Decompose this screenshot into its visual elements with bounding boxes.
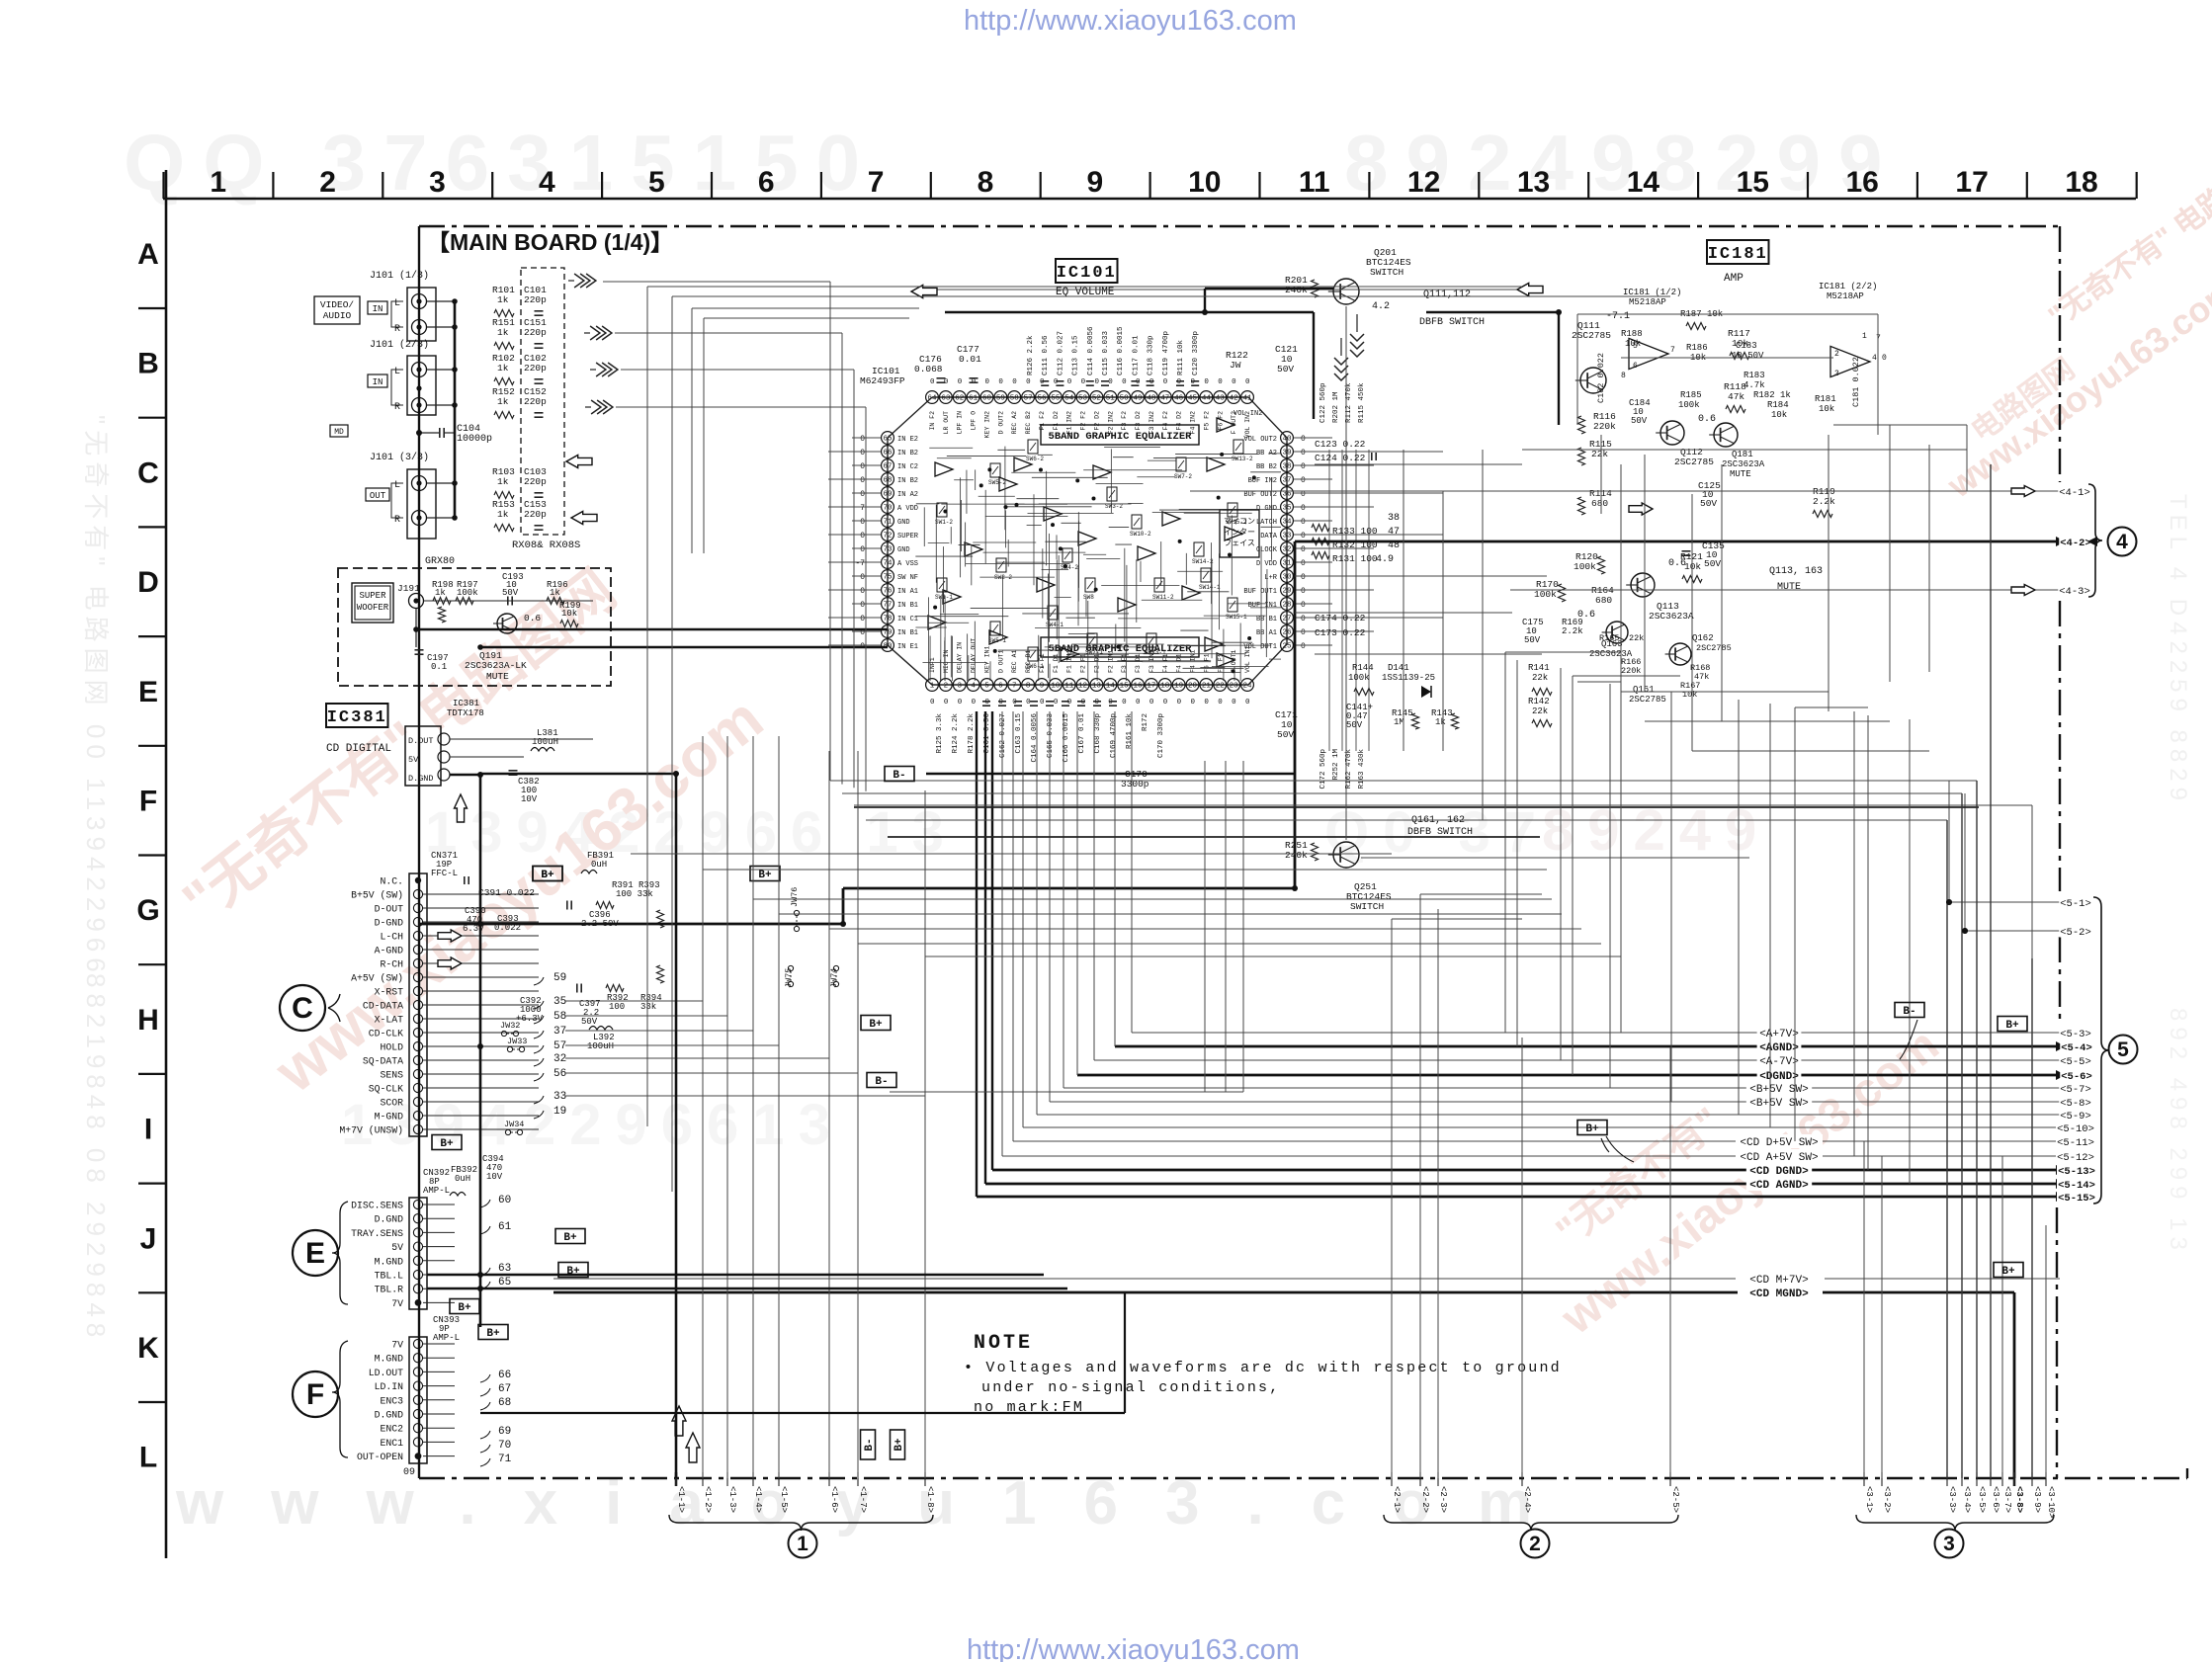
svg-text:16: 16 (1134, 683, 1144, 691)
svg-text:0: 0 (1232, 699, 1236, 706)
svg-text:TBL.R: TBL.R (375, 1285, 404, 1295)
svg-text:0: 0 (1301, 449, 1306, 457)
svg-text:11: 11 (1064, 683, 1074, 691)
svg-text:C118 330p: C118 330p (1148, 335, 1155, 375)
svg-text:220k: 220k (1621, 666, 1641, 676)
svg-text:インター: インター (1224, 528, 1255, 537)
svg-text:D.GND: D.GND (375, 1410, 404, 1421)
svg-text:C120 3300p: C120 3300p (1192, 331, 1200, 375)
svg-text:BUF IN2: BUF IN2 (1248, 477, 1277, 485)
svg-text:SW14-1: SW14-1 (1199, 584, 1221, 591)
svg-text:<5-14>: <5-14> (2058, 1180, 2095, 1192)
svg-text:B+: B+ (486, 1328, 500, 1340)
svg-text:OUT-OPEN: OUT-OPEN (357, 1452, 403, 1462)
svg-text:0: 0 (1191, 699, 1196, 706)
svg-text:LD.OUT: LD.OUT (369, 1368, 403, 1378)
svg-text:<CD DGND>: <CD DGND> (1749, 1166, 1809, 1178)
svg-text:B+: B+ (2005, 1020, 2019, 1032)
svg-text:<2-1>: <2-1> (1392, 1486, 1402, 1513)
svg-text:C163 0.15: C163 0.15 (1015, 713, 1023, 754)
svg-text:25: 25 (1282, 643, 1292, 651)
svg-text:X-LAT: X-LAT (375, 1015, 404, 1026)
svg-text:<2-2>: <2-2> (1420, 1486, 1430, 1513)
svg-text:100k: 100k (1678, 400, 1700, 410)
svg-text:0: 0 (860, 615, 865, 623)
svg-text:79: 79 (883, 629, 892, 637)
svg-text:R178 2.2k: R178 2.2k (968, 713, 976, 754)
svg-text:33k: 33k (640, 1002, 656, 1012)
svg-text:13: 13 (1092, 683, 1102, 691)
svg-text:AMP: AMP (1724, 273, 1744, 285)
svg-text:R184: R184 (1767, 400, 1789, 410)
svg-text:<3-4>: <3-4> (1962, 1486, 1972, 1513)
svg-text:47k: 47k (1728, 391, 1744, 402)
svg-text:0: 0 (1218, 699, 1223, 706)
svg-text:G: G (136, 894, 159, 927)
svg-text:J: J (140, 1222, 157, 1255)
svg-text:Q113, 163: Q113, 163 (1769, 566, 1823, 577)
svg-text:3: 3 (1943, 1533, 1955, 1555)
svg-text:<5-5>: <5-5> (2060, 1056, 2091, 1068)
svg-text:4: 4 (1872, 354, 1877, 363)
svg-text:A: A (137, 238, 159, 271)
svg-text:D.OUT: D.OUT (408, 736, 434, 746)
svg-text:0: 0 (944, 699, 949, 706)
svg-text:70: 70 (498, 1440, 511, 1452)
svg-text:DELAY IN: DELAY IN (957, 642, 964, 673)
svg-text:2SC3623A: 2SC3623A (1649, 611, 1694, 622)
svg-text:15: 15 (1737, 166, 1769, 199)
svg-text:M-GND: M-GND (375, 1112, 404, 1122)
svg-text:R188: R188 (1621, 329, 1643, 339)
svg-text:A VSS: A VSS (897, 560, 918, 568)
svg-text:SW6-2: SW6-2 (1026, 456, 1044, 462)
svg-text:F2 F2: F2 F2 (1080, 411, 1087, 431)
svg-text:SW5-1: SW5-1 (988, 637, 1006, 644)
svg-text:1k: 1k (497, 363, 509, 374)
svg-text:7: 7 (860, 504, 865, 513)
svg-text:22k: 22k (1532, 673, 1548, 683)
svg-text:0: 0 (860, 573, 865, 582)
svg-text:C113 0.15: C113 0.15 (1072, 335, 1080, 375)
svg-text:L: L (394, 367, 400, 377)
svg-text:48: 48 (1147, 395, 1155, 403)
svg-text:IN C2: IN C2 (897, 463, 918, 471)
svg-text:0: 0 (1245, 699, 1250, 706)
svg-text:C: C (137, 457, 159, 489)
svg-text:3: 3 (429, 166, 446, 199)
svg-text:1k: 1k (497, 294, 509, 305)
svg-text:<CD AGND>: <CD AGND> (1749, 1180, 1809, 1192)
svg-text:WOOFER: WOOFER (357, 603, 389, 613)
svg-text:22k: 22k (1591, 449, 1608, 459)
svg-text:SW10-2: SW10-2 (1130, 531, 1151, 538)
svg-text:<5-9>: <5-9> (2060, 1111, 2091, 1122)
svg-text:46: 46 (1174, 395, 1184, 403)
svg-text:30: 30 (1282, 574, 1292, 582)
svg-text:SW13-2: SW13-2 (1232, 456, 1253, 462)
svg-text:0: 0 (1301, 573, 1306, 582)
svg-text:SW8: SW8 (1083, 594, 1094, 601)
svg-text:0.6: 0.6 (524, 613, 541, 623)
svg-text:SW NF: SW NF (897, 574, 918, 582)
svg-text:680: 680 (1595, 595, 1612, 606)
svg-text:1k: 1k (1435, 717, 1446, 727)
svg-text:0: 0 (930, 699, 935, 706)
svg-text:100uH: 100uH (587, 1041, 614, 1051)
svg-text:50V: 50V (1704, 558, 1721, 569)
svg-text:<A+7V>: <A+7V> (1759, 1029, 1799, 1040)
svg-text:5: 5 (984, 683, 989, 691)
svg-text:B+: B+ (563, 1232, 577, 1244)
svg-text:B+: B+ (440, 1138, 454, 1150)
svg-text:ENC3: ENC3 (380, 1395, 403, 1406)
svg-text:<2-4>: <2-4> (1522, 1486, 1532, 1513)
svg-text:J101 (1/3): J101 (1/3) (370, 270, 429, 282)
svg-text:<1-6>: <1-6> (829, 1486, 839, 1513)
svg-text:6: 6 (998, 683, 1003, 691)
svg-text:H: H (137, 1004, 159, 1037)
svg-text:C172 560p: C172 560p (1319, 749, 1327, 789)
svg-text:2: 2 (319, 166, 336, 199)
svg-text:71: 71 (883, 519, 893, 527)
svg-text:D OUT1: D OUT1 (997, 649, 1004, 673)
svg-text:0: 0 (860, 490, 865, 499)
svg-text:TRAY.SENS: TRAY.SENS (351, 1228, 403, 1239)
svg-text:-7: -7 (855, 559, 865, 568)
svg-text:AUDIO: AUDIO (323, 310, 352, 321)
svg-text:11: 11 (1299, 166, 1330, 199)
svg-text:0: 0 (860, 476, 865, 485)
svg-text:0: 0 (1163, 699, 1168, 706)
svg-text:MUTE: MUTE (1777, 582, 1801, 593)
svg-text:0: 0 (1301, 559, 1306, 568)
svg-text:62: 62 (955, 395, 964, 403)
svg-text:R111 10k: R111 10k (1177, 339, 1185, 375)
svg-text:0: 0 (1301, 518, 1306, 527)
svg-text:D141: D141 (1388, 663, 1409, 673)
svg-text:0uH: 0uH (591, 860, 607, 870)
svg-text:JW: JW (1230, 360, 1241, 371)
svg-text:88219848 08 2929848: 88219848 08 2929848 (81, 973, 111, 1343)
svg-text:58: 58 (553, 1011, 566, 1023)
svg-text:F6 F1: F6 F1 (1217, 653, 1224, 673)
svg-text:<B+5V SW>: <B+5V SW> (1749, 1084, 1808, 1096)
svg-text:B+: B+ (541, 870, 554, 881)
svg-text:65: 65 (883, 436, 893, 444)
svg-text:0: 0 (1301, 615, 1306, 623)
svg-text:0: 0 (1149, 699, 1154, 706)
svg-text:C165 0.033: C165 0.033 (1047, 713, 1055, 759)
svg-text:IC381: IC381 (453, 699, 479, 708)
svg-text:68: 68 (883, 477, 892, 485)
svg-text:8: 8 (978, 166, 994, 199)
svg-text:73: 73 (883, 546, 893, 554)
svg-text:42: 42 (1230, 395, 1238, 403)
svg-text:A VDD: A VDD (897, 505, 918, 513)
svg-text:220k: 220k (1593, 421, 1616, 432)
svg-text:C119 4700p: C119 4700p (1162, 331, 1170, 375)
svg-text:50V: 50V (1277, 729, 1294, 740)
svg-text:R182 1k: R182 1k (1753, 390, 1791, 400)
svg-text:F: F (306, 1378, 324, 1411)
svg-text:10k: 10k (1819, 404, 1834, 414)
svg-text:2SC3623A-LK: 2SC3623A-LK (465, 660, 527, 671)
svg-text:R141: R141 (1528, 663, 1550, 673)
svg-text:80: 80 (883, 643, 893, 651)
svg-text:50V: 50V (581, 1017, 598, 1027)
svg-text:0: 0 (860, 462, 865, 471)
svg-text:50: 50 (1120, 395, 1130, 403)
svg-text:0: 0 (1204, 378, 1209, 386)
svg-text:75: 75 (883, 574, 893, 582)
svg-text:56: 56 (553, 1068, 566, 1080)
svg-text:CD DIGITAL: CD DIGITAL (326, 743, 391, 755)
svg-text:SW5-2: SW5-2 (988, 479, 1006, 486)
svg-text:Q162: Q162 (1692, 633, 1714, 643)
svg-text:-7.1: -7.1 (1606, 311, 1630, 322)
svg-text:E: E (305, 1237, 325, 1270)
svg-text:47: 47 (1388, 527, 1400, 538)
svg-text:<5-6>: <5-6> (2061, 1071, 2092, 1083)
svg-text:GND: GND (897, 519, 910, 527)
svg-text:C117 0.01: C117 0.01 (1132, 335, 1140, 375)
svg-text:44: 44 (1202, 395, 1212, 403)
svg-text:BUF OUT2: BUF OUT2 (1243, 491, 1277, 499)
svg-text:D.GND: D.GND (375, 1214, 404, 1225)
svg-text:0: 0 (860, 587, 865, 596)
svg-text:B+: B+ (2001, 1266, 2015, 1278)
svg-text:R131 100: R131 100 (1332, 553, 1378, 564)
svg-text:5: 5 (2117, 1039, 2129, 1061)
svg-text:<B+5V SW>: <B+5V SW> (1749, 1098, 1808, 1110)
svg-text:R125 3.3k: R125 3.3k (936, 713, 944, 754)
svg-text:FFC-L: FFC-L (431, 869, 458, 878)
svg-text:R165: R165 (1599, 633, 1619, 643)
svg-text:Q111,112: Q111,112 (1423, 290, 1471, 300)
svg-text:69: 69 (883, 491, 892, 499)
svg-text:0: 0 (860, 642, 865, 651)
svg-text:D.GND: D.GND (408, 774, 434, 784)
svg-text:<5-13>: <5-13> (2058, 1166, 2095, 1178)
svg-text:JW32: JW32 (500, 1021, 520, 1031)
svg-text:D VDD: D VDD (1256, 560, 1277, 568)
svg-text:<CD A+5V SW>: <CD A+5V SW> (1740, 1152, 1818, 1164)
svg-text:0: 0 (1122, 699, 1127, 706)
svg-text:M+7V (UNSW): M+7V (UNSW) (339, 1125, 403, 1136)
svg-text:67: 67 (883, 463, 892, 471)
svg-text:F1 F2: F1 F2 (1039, 411, 1046, 431)
svg-text:0: 0 (958, 378, 963, 386)
svg-text:50V: 50V (1277, 364, 1294, 374)
svg-text:58: 58 (1010, 395, 1019, 403)
svg-text:JW33: JW33 (507, 1037, 527, 1046)
svg-text:F4 F2: F4 F2 (1162, 411, 1169, 431)
svg-text:0: 0 (1301, 545, 1306, 554)
svg-text:2SC3623A: 2SC3623A (1722, 459, 1765, 469)
svg-text:C123 0.22: C123 0.22 (1315, 439, 1366, 450)
svg-text:27: 27 (1282, 616, 1291, 623)
svg-text:C182 0.022: C182 0.022 (1596, 353, 1606, 403)
svg-text:R126 2.2k: R126 2.2k (1027, 335, 1035, 375)
svg-text:B+: B+ (893, 1438, 905, 1452)
svg-text:C112 0.027: C112 0.027 (1057, 331, 1064, 375)
svg-text:C391 0.022: C391 0.022 (478, 887, 535, 898)
svg-text:C124 0.22: C124 0.22 (1315, 453, 1366, 463)
svg-text:5BAND GRAPHIC EQUALIZER: 5BAND GRAPHIC EQUALIZER (1049, 431, 1193, 443)
svg-text:22k: 22k (1532, 706, 1548, 716)
svg-text:22: 22 (1216, 683, 1225, 691)
svg-text:1k: 1k (497, 509, 509, 520)
svg-text:0: 0 (1301, 532, 1306, 540)
svg-text:L+R: L+R (1264, 574, 1277, 582)
svg-text:53: 53 (1078, 395, 1088, 403)
svg-text:SUPER: SUPER (359, 591, 386, 601)
svg-text:77: 77 (883, 602, 892, 610)
svg-text:IC381: IC381 (327, 708, 387, 727)
svg-text:65: 65 (498, 1277, 511, 1288)
svg-text:R185: R185 (1680, 390, 1702, 400)
svg-text:0: 0 (984, 378, 989, 386)
svg-text:2: 2 (1834, 350, 1839, 359)
svg-text:0: 0 (1040, 699, 1045, 706)
svg-text:C181 0.022: C181 0.022 (1851, 357, 1861, 407)
svg-text:2: 2 (1529, 1533, 1541, 1555)
svg-text:76: 76 (883, 588, 893, 596)
svg-text:REC A1: REC A1 (1011, 649, 1018, 673)
svg-text:<5-4>: <5-4> (2061, 1042, 2092, 1054)
svg-text:0: 0 (1012, 378, 1017, 386)
svg-text:41: 41 (1243, 395, 1253, 403)
svg-text:B+: B+ (458, 1302, 471, 1314)
svg-text:C164 0.0056: C164 0.0056 (1031, 713, 1039, 763)
svg-text:Q181: Q181 (1732, 450, 1753, 459)
svg-text:60: 60 (982, 395, 992, 403)
svg-text:B-: B- (1903, 1006, 1915, 1018)
svg-text:<5-10>: <5-10> (2057, 1123, 2094, 1135)
svg-text:2SC2785: 2SC2785 (1696, 643, 1732, 653)
svg-text:R161 10k: R161 10k (1126, 713, 1134, 750)
svg-text:C167 0.01: C167 0.01 (1078, 713, 1086, 754)
svg-text:IN E2: IN E2 (897, 436, 918, 444)
svg-text:VOL IN2: VOL IN2 (1234, 410, 1262, 418)
svg-text:74: 74 (883, 560, 893, 568)
svg-text:09: 09 (403, 1467, 415, 1478)
svg-text:SW14-2: SW14-2 (1192, 558, 1214, 565)
svg-text:0: 0 (1301, 476, 1306, 485)
svg-text:100k: 100k (457, 588, 478, 598)
svg-text:B+: B+ (1585, 1123, 1599, 1135)
svg-text:IN A1: IN A1 (897, 588, 918, 596)
svg-text:0: 0 (1232, 378, 1236, 386)
svg-text:0: 0 (860, 601, 865, 610)
svg-text:IN E1: IN E1 (897, 643, 918, 651)
svg-text:100: 100 (609, 1002, 625, 1012)
svg-text:JW76: JW76 (790, 887, 800, 907)
svg-text:<A-7V>: <A-7V> (1759, 1056, 1799, 1068)
svg-text:40: 40 (1282, 436, 1292, 444)
svg-text:39: 39 (1282, 450, 1291, 457)
svg-text:C114 0.0056: C114 0.0056 (1087, 326, 1095, 375)
svg-text:B: B (137, 348, 159, 380)
svg-text:45: 45 (1188, 395, 1198, 403)
svg-text:220p: 220p (524, 509, 547, 520)
svg-text:<5-12>: <5-12> (2057, 1152, 2094, 1164)
svg-text:L: L (139, 1442, 157, 1474)
svg-text:F: F (139, 786, 157, 818)
svg-text:57: 57 (1024, 395, 1033, 403)
svg-text:13: 13 (1517, 166, 1550, 199)
svg-text:680: 680 (1591, 498, 1608, 509)
svg-text:MIC IN: MIC IN (943, 649, 950, 673)
svg-text:9: 9 (1087, 166, 1104, 199)
svg-text:31: 31 (1282, 560, 1292, 568)
svg-text:VIDEO/: VIDEO/ (320, 299, 355, 310)
svg-text:F5 F2: F5 F2 (1203, 411, 1210, 431)
svg-text:VOL OUT2: VOL OUT2 (1243, 436, 1277, 444)
svg-text:1SS1139-25: 1SS1139-25 (1382, 673, 1435, 683)
svg-text:マイコン: マイコン (1224, 517, 1255, 526)
svg-text:M62493FP: M62493FP (860, 375, 905, 386)
svg-text:69: 69 (498, 1426, 511, 1438)
svg-text:14: 14 (1106, 683, 1116, 691)
svg-text:32: 32 (1282, 546, 1291, 554)
svg-text:0: 0 (860, 628, 865, 637)
svg-text:19: 19 (1174, 683, 1183, 691)
svg-text:1k: 1k (497, 327, 509, 338)
svg-text:C183: C183 (1736, 341, 1757, 351)
svg-text:0: 0 (860, 449, 865, 457)
svg-text:TBL.L: TBL.L (375, 1271, 404, 1282)
svg-text:DATA: DATA (1260, 533, 1278, 540)
svg-text:D-GND: D-GND (375, 918, 404, 929)
svg-text:www.xiaoyu163.com: www.xiaoyu163.com (175, 1469, 1579, 1537)
svg-text:49: 49 (1134, 395, 1143, 403)
svg-text:MUTE: MUTE (1730, 469, 1751, 479)
svg-text:10k: 10k (1771, 410, 1787, 420)
svg-text:2.2k: 2.2k (1813, 496, 1835, 507)
svg-text:C169 4700p: C169 4700p (1110, 713, 1118, 758)
svg-text:220p: 220p (524, 476, 547, 487)
svg-text:<1-7>: <1-7> (858, 1486, 868, 1513)
svg-text:<3-5>: <3-5> (1977, 1486, 1987, 1513)
svg-text:J101 (2/3): J101 (2/3) (370, 339, 429, 351)
svg-text:SW15-1: SW15-1 (1226, 614, 1247, 621)
svg-text:139422966 13: 139422966 13 (425, 800, 958, 865)
svg-text:5: 5 (648, 166, 665, 199)
svg-text:100k: 100k (1534, 589, 1557, 600)
svg-text:4: 4 (971, 683, 976, 691)
svg-text:R115 450k: R115 450k (1358, 382, 1366, 423)
svg-text:2SC2785: 2SC2785 (1629, 695, 1666, 705)
svg-text:L: L (394, 298, 400, 309)
svg-text:8: 8 (1026, 683, 1031, 691)
svg-text:3: 3 (1834, 370, 1839, 378)
svg-text:61: 61 (498, 1221, 512, 1233)
svg-text:10k: 10k (1625, 339, 1641, 349)
svg-text:IN: IN (373, 377, 383, 387)
svg-text:DBFB SWITCH: DBFB SWITCH (1419, 317, 1485, 328)
svg-text:C: C (292, 992, 313, 1025)
svg-text:9: 9 (1040, 683, 1045, 691)
svg-text:C170 3300p: C170 3300p (1157, 713, 1165, 758)
svg-text:【MAIN BOARD (1/4)】: 【MAIN BOARD (1/4)】 (427, 229, 673, 255)
svg-text:F1 D2: F1 D2 (1053, 411, 1060, 431)
svg-text:0.01: 0.01 (959, 354, 981, 365)
svg-text:33: 33 (1282, 533, 1292, 540)
svg-text:F4 D2: F4 D2 (1176, 411, 1183, 431)
svg-text:<1-1>: <1-1> (676, 1486, 686, 1513)
